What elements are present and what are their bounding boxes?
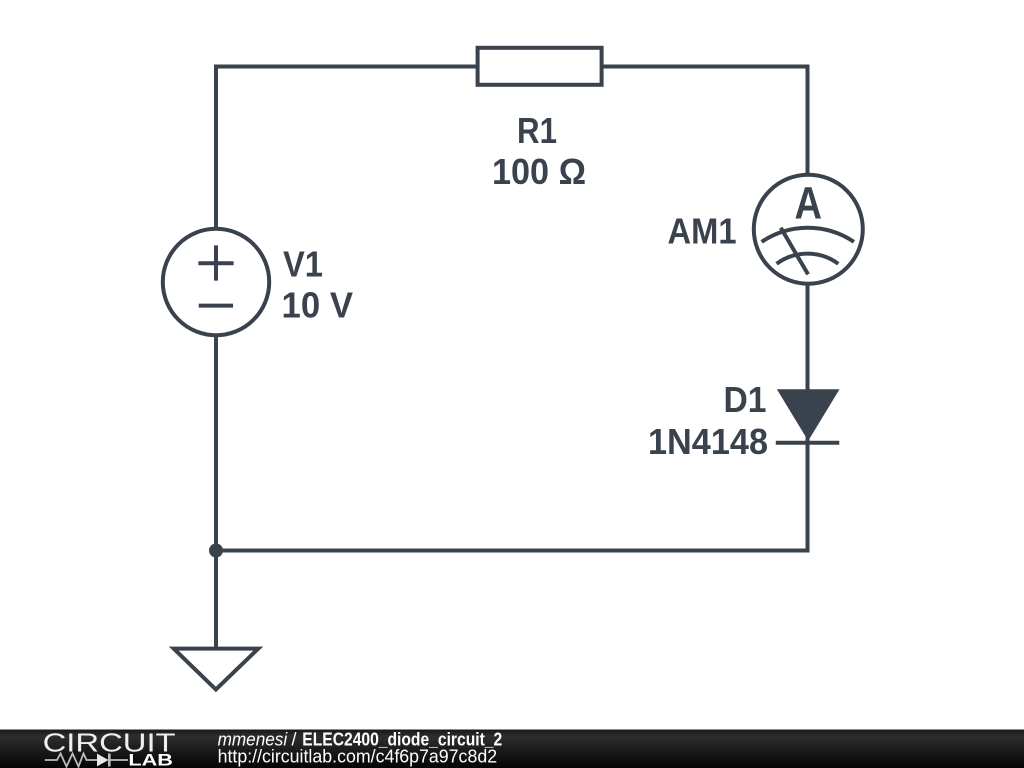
wire right vertical (AM1 / D1 branch)	[806, 65, 810, 553]
ammeter scale arc small	[777, 254, 839, 264]
svg-text:V1: V1	[283, 243, 323, 284]
wire left vertical (V1 branch)	[214, 65, 218, 649]
wire top (V1 to AM1 through R1)	[214, 65, 810, 69]
svg-text:A: A	[794, 178, 822, 229]
diode D1 cathode bar	[776, 441, 840, 445]
diode D1 anode triangle	[780, 391, 836, 438]
ground symbol	[174, 649, 259, 690]
V1 plus sign	[198, 245, 233, 280]
svg-text:D1: D1	[724, 379, 767, 420]
node junction dot	[209, 544, 223, 558]
svg-text:LAB: LAB	[128, 752, 173, 768]
resistor R1	[478, 48, 602, 85]
svg-text:http://circuitlab.com/c4f6p7a9: http://circuitlab.com/c4f6p7a97c8d2	[218, 746, 498, 766]
svg-text:R1: R1	[517, 110, 557, 151]
svg-text:100 Ω: 100 Ω	[492, 151, 586, 192]
svg-text:AM1: AM1	[668, 210, 737, 251]
wire bottom (return to ground node)	[214, 549, 810, 553]
svg-text:1N4148: 1N4148	[648, 421, 768, 462]
ammeter needle	[781, 228, 808, 275]
ammeter AM1	[754, 175, 863, 284]
svg-text:10 V: 10 V	[282, 284, 354, 325]
ammeter scale arc large	[762, 228, 854, 242]
voltage source V1	[163, 229, 269, 335]
CircuitLab logo resistor-diode glyph	[45, 754, 128, 767]
attribution line 1: author / title	[218, 730, 503, 750]
V1 minus sign	[199, 304, 233, 308]
